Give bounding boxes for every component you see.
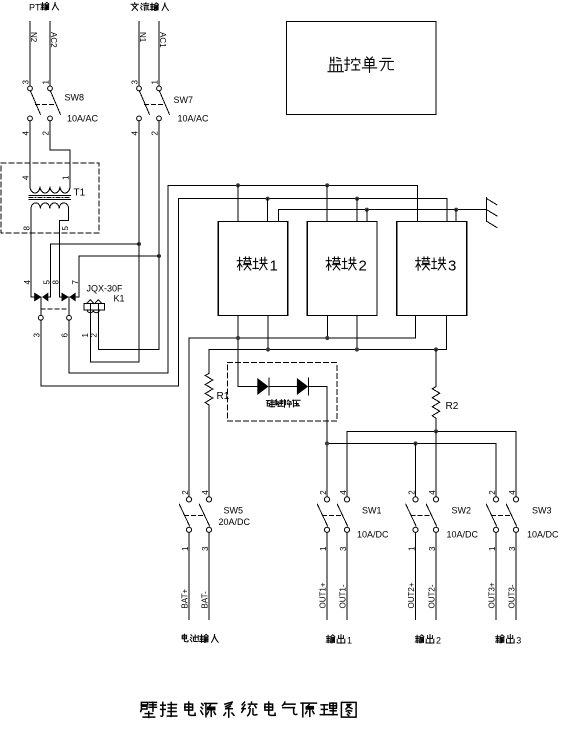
svg-text:3: 3 xyxy=(131,80,140,85)
switch SW2 gang link xyxy=(411,514,432,516)
wire OUT- to SW2 xyxy=(435,431,437,497)
svg-text:10A/DC: 10A/DC xyxy=(527,530,559,540)
switch SW8 pole 1 terminals xyxy=(28,86,33,91)
wire module3 +out down xyxy=(415,316,417,339)
svg-text:10A/AC: 10A/AC xyxy=(178,114,210,124)
switch SW3 blade 1 xyxy=(486,504,496,526)
svg-text:OUT3-: OUT3- xyxy=(508,584,517,608)
switch SW7 pole 1 terminals xyxy=(137,86,142,91)
svg-text:5: 5 xyxy=(61,226,70,231)
svg-text:PT: PT xyxy=(29,3,41,13)
junction bus B module2 xyxy=(355,197,359,201)
junction bus C module2 xyxy=(365,208,369,212)
switch SW3 bottom wires xyxy=(495,532,497,619)
svg-text:BAT-: BAT- xyxy=(201,591,210,609)
wire SW7 pin4 down (N1) xyxy=(138,121,140,362)
switch SW8 pole 2 terminals xyxy=(48,86,53,91)
node AC input label xyxy=(131,3,138,11)
switch SW5 blade 1 xyxy=(179,504,189,526)
wire into diode D1 xyxy=(238,386,257,388)
wire OUT+ to SW2 xyxy=(415,444,417,497)
switch SW3 blade 2 xyxy=(506,504,516,526)
svg-text:3: 3 xyxy=(428,546,437,551)
module 2 box xyxy=(307,222,377,316)
switch SW5 bottom wires xyxy=(188,532,190,619)
svg-text:BAT+: BAT+ xyxy=(181,589,190,609)
svg-text:R2: R2 xyxy=(446,401,459,412)
bus negative y350 xyxy=(209,349,446,351)
switch SW1 gang link xyxy=(322,514,342,516)
wire relay pin 8 stub xyxy=(60,296,62,298)
svg-text:3: 3 xyxy=(508,546,517,551)
svg-text:1: 1 xyxy=(488,546,497,551)
svg-text:8: 8 xyxy=(52,280,61,285)
wire D1 to D2 xyxy=(269,386,297,388)
wire bus C to module2 xyxy=(366,210,368,222)
junction OUT+ SW1 xyxy=(325,441,329,445)
svg-text:1: 1 xyxy=(151,80,160,85)
svg-text:4: 4 xyxy=(22,175,31,180)
wire branch to relay pin 7 xyxy=(79,255,159,257)
junction bus A module1 xyxy=(236,183,240,187)
module 2 label xyxy=(326,257,340,270)
relay K1 contact pair2 right triangle xyxy=(69,293,75,302)
svg-text:2: 2 xyxy=(319,490,328,495)
switch SW5 gang link xyxy=(184,514,204,516)
module 3 box xyxy=(397,222,467,316)
wire module1 -out down xyxy=(267,316,269,350)
wire module2 -out down xyxy=(356,316,358,350)
switch SW7 gang link xyxy=(145,103,165,105)
module 3 label xyxy=(416,257,430,270)
switch SW7 pole 2 terminals xyxy=(157,86,162,91)
svg-text:1: 1 xyxy=(181,546,190,551)
svg-text:OUT1-: OUT1- xyxy=(339,584,348,608)
svg-text:3: 3 xyxy=(516,636,521,646)
wire AC2 column top xyxy=(49,21,51,86)
transformer T1 primary winding xyxy=(30,187,70,194)
switch SW1 bottom wires xyxy=(326,532,328,619)
wire bus B to module2 xyxy=(356,199,358,222)
svg-text:SW1: SW1 xyxy=(362,506,382,516)
wire relay pin 5 feed xyxy=(48,244,50,297)
bus C (ground bus) xyxy=(278,210,486,222)
svg-text:3: 3 xyxy=(201,546,210,551)
transformer T1 core xyxy=(29,195,71,197)
transformer T1 dashed enclosure xyxy=(1,163,99,233)
switch SW7 blade 1 xyxy=(140,91,150,114)
switch SW8 blade 1 xyxy=(31,91,41,114)
junction AC1 branch xyxy=(157,254,161,258)
junction OUT- R2/SW2 xyxy=(434,429,438,433)
svg-text:3: 3 xyxy=(33,333,42,338)
svg-text:2: 2 xyxy=(181,490,190,495)
switch SW1 pole terminals xyxy=(324,497,329,502)
bus OUT- y431 xyxy=(347,431,516,497)
diode D1 xyxy=(257,378,268,395)
wire T1 pin 8 to relay contact xyxy=(30,208,32,297)
svg-text:4: 4 xyxy=(428,490,437,495)
svg-text:2: 2 xyxy=(407,490,416,495)
svg-text:4: 4 xyxy=(23,280,32,285)
switch SW1 blade 2 xyxy=(337,504,347,526)
wire common 6 to bus A xyxy=(69,185,168,373)
svg-text:1: 1 xyxy=(319,546,328,551)
wire common 3 to bus B xyxy=(41,199,179,386)
switch SW2 bottom wires xyxy=(415,532,417,619)
svg-text:2: 2 xyxy=(42,131,51,136)
svg-text:4: 4 xyxy=(22,131,31,136)
switch SW2 blade 2 xyxy=(426,504,436,526)
ground symbol xyxy=(486,198,488,222)
svg-text:2: 2 xyxy=(89,333,98,338)
wire branch to relay pin 5 xyxy=(51,243,139,245)
svg-text:4: 4 xyxy=(201,490,210,495)
switch SW3 pole terminals xyxy=(493,497,498,502)
wire SW8 pin2 to T1 primary pin 1 xyxy=(50,121,70,187)
relay K1 contact pair1 left triangle xyxy=(34,293,41,302)
wire N2 column top xyxy=(29,21,31,86)
svg-text:SW5: SW5 xyxy=(224,506,244,516)
svg-text:10A/DC: 10A/DC xyxy=(447,530,479,540)
relay K1 contact pair2 left triangle xyxy=(62,293,69,302)
svg-text:AC2: AC2 xyxy=(49,32,58,48)
wire bus B to module1 xyxy=(267,199,269,222)
wire coil pin 2 xyxy=(97,310,99,349)
wire module2 +out down xyxy=(326,316,328,339)
resistor R1 xyxy=(205,350,213,497)
relay K1 coil loops xyxy=(87,310,99,313)
bus B (module - feed) xyxy=(178,199,447,222)
switch SW5 pole terminals xyxy=(186,497,191,502)
svg-text:20A/DC: 20A/DC xyxy=(219,517,251,527)
diode D2 xyxy=(297,378,308,395)
wire SW8 pin4 to T1 primary pin 4 xyxy=(29,121,31,187)
wire T1 pin 5 to relay contact xyxy=(60,208,69,297)
svg-text:2: 2 xyxy=(488,490,497,495)
junction OUT+ SW2 xyxy=(413,441,417,445)
wire module3 -out down xyxy=(445,316,447,350)
relay K1 gang link xyxy=(41,308,69,310)
switch SW8 gang link xyxy=(36,103,56,105)
svg-text:1: 1 xyxy=(62,175,71,180)
monitoring unit label xyxy=(328,57,343,71)
wire AC1 to coil pin 2 xyxy=(98,348,159,350)
silicon chain label xyxy=(266,400,274,407)
junction bus C module3 xyxy=(454,208,458,212)
wire SW7 pin2 down (AC1) xyxy=(158,121,160,350)
bus A (module + feed) xyxy=(168,185,418,221)
svg-text:SW2: SW2 xyxy=(452,506,472,516)
wire relay pin 7 feed xyxy=(76,256,79,297)
wire bus A to module2 xyxy=(326,185,328,221)
svg-text:OUT2-: OUT2- xyxy=(428,584,437,608)
svg-text:3: 3 xyxy=(448,258,456,275)
node battery input label xyxy=(182,634,188,642)
svg-text:4: 4 xyxy=(131,131,140,136)
resistor R2 xyxy=(432,350,440,432)
junction y350 module2 xyxy=(355,347,359,351)
svg-text:SW7: SW7 xyxy=(174,95,194,105)
silicon chain dashed box xyxy=(228,363,337,421)
switch SW7 blade 2 xyxy=(160,91,170,114)
svg-text:1: 1 xyxy=(347,636,352,646)
switch SW1 blade 1 xyxy=(317,504,327,526)
svg-text:8: 8 xyxy=(23,226,32,231)
junction y350 R2 top xyxy=(434,347,438,351)
svg-text:3: 3 xyxy=(339,546,348,551)
svg-text:JQX-30F: JQX-30F xyxy=(87,284,124,294)
svg-text:T1: T1 xyxy=(74,188,86,199)
node output3 label xyxy=(496,635,505,643)
module 1 box xyxy=(218,222,287,316)
bus OUT+ y443 xyxy=(327,444,496,497)
monitoring unit box xyxy=(286,21,436,114)
wire relay common 3 xyxy=(40,297,42,315)
wire coil pin 1 xyxy=(89,310,91,362)
svg-text:OUT2+: OUT2+ xyxy=(407,582,416,608)
switch SW8 blade 2 xyxy=(51,91,61,114)
wire module1 +out down to diode row xyxy=(237,316,239,387)
svg-text:2: 2 xyxy=(436,636,441,646)
junction y338 module1 xyxy=(236,336,240,340)
relay K1 common 3 terminal xyxy=(38,315,43,320)
junction bus A module2 xyxy=(325,183,329,187)
node output2 label xyxy=(415,635,424,643)
relay K1 coil humps xyxy=(87,300,102,304)
module 1 label xyxy=(237,257,251,270)
svg-text:1: 1 xyxy=(42,80,51,85)
switch SW2 pole terminals xyxy=(413,497,418,502)
relay K1 contact pair1 right triangle xyxy=(42,293,48,302)
bus battery positive y338 xyxy=(189,338,416,497)
wire N1 to coil pin 1 xyxy=(90,361,139,363)
svg-text:3: 3 xyxy=(22,80,31,85)
svg-text:OUT3+: OUT3+ xyxy=(488,582,497,608)
wire D2 out xyxy=(309,387,328,497)
svg-text:OUT1+: OUT1+ xyxy=(319,582,328,608)
svg-text:4: 4 xyxy=(339,490,348,495)
relay K1 coil through-wires xyxy=(89,304,91,311)
junction y338 module2 xyxy=(325,336,329,340)
node output1 label xyxy=(326,635,335,643)
wire relay common 6 xyxy=(68,297,70,315)
relay K1 common 6 terminal xyxy=(67,315,72,320)
svg-text:6: 6 xyxy=(61,333,70,338)
svg-text:4: 4 xyxy=(508,490,517,495)
svg-text:2: 2 xyxy=(151,131,160,136)
svg-text:AC1: AC1 xyxy=(158,32,167,48)
wire AC1 column top xyxy=(158,21,160,86)
title: wall-mounted power system electrical schematic xyxy=(141,702,157,717)
junction y350 module1 xyxy=(266,347,270,351)
svg-text:2: 2 xyxy=(359,258,367,275)
svg-text:10A/AC: 10A/AC xyxy=(67,114,99,124)
switch SW3 gang link xyxy=(491,514,511,516)
svg-text:N1: N1 xyxy=(138,32,147,43)
svg-text:10A/DC: 10A/DC xyxy=(357,530,389,540)
svg-text:SW8: SW8 xyxy=(65,93,85,103)
wire bus A to module1 xyxy=(237,185,239,221)
switch SW5 blade 2 xyxy=(199,504,209,526)
junction bus B module1 xyxy=(266,197,270,201)
svg-text:K1: K1 xyxy=(114,294,125,304)
switch SW2 blade 1 xyxy=(406,504,416,526)
relay K1 coil box xyxy=(84,304,105,311)
wire bus C to module3 xyxy=(455,210,457,222)
wire N1 column top xyxy=(138,21,140,86)
junction N1 branch xyxy=(137,242,141,246)
svg-text:SW3: SW3 xyxy=(532,506,552,516)
svg-text:1: 1 xyxy=(270,258,278,275)
svg-text:1: 1 xyxy=(407,546,416,551)
svg-text:N2: N2 xyxy=(29,32,38,43)
wire relay pin 4 stub xyxy=(31,296,34,298)
transformer T1 secondary winding xyxy=(31,203,69,209)
